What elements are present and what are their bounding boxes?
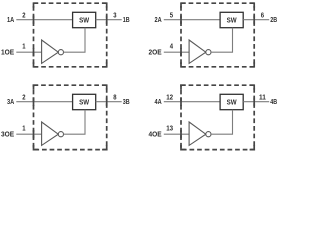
svg-text:2: 2 [22,92,25,101]
inverter bubble channel 3 [58,132,63,137]
wire 1A input [16,19,72,21]
svg-text:1: 1 [22,42,25,51]
wire 3OE input [16,133,41,135]
svg-text:3B: 3B [123,97,130,106]
wire 4A input [164,101,220,103]
inverter channel 1 [42,40,59,63]
svg-text:4A: 4A [155,97,163,106]
wire 1OE input [16,51,41,53]
svg-text:SW: SW [79,16,89,25]
svg-text:4OE: 4OE [149,130,162,139]
wire 2B output [243,19,269,21]
channel 4 dashed enclosure [181,85,254,149]
switch SW channel 3 [73,94,96,109]
tick pin 1 at enclosure border [33,130,35,138]
inverter channel 2 [189,40,206,63]
svg-text:13: 13 [166,124,173,133]
svg-text:4: 4 [170,42,174,51]
svg-text:2A: 2A [155,15,163,24]
tick pin 11 at enclosure border [253,98,255,106]
svg-text:6: 6 [261,10,264,19]
svg-text:1: 1 [22,124,25,133]
svg-text:1OE: 1OE [1,48,14,57]
wire 2OE input [164,51,189,53]
svg-text:3OE: 3OE [1,130,14,139]
wire 3A input [16,101,72,103]
wire 1B output [96,19,122,21]
svg-text:11: 11 [259,92,266,101]
svg-text:3: 3 [113,10,116,19]
wire inverter output to SW control channel 4 [211,110,233,135]
wire inverter output to SW control channel 3 [64,110,86,135]
switch SW channel 2 [220,12,243,27]
tick pin 8 at enclosure border [106,98,108,106]
svg-text:8: 8 [113,92,116,101]
wire 4OE input [164,133,189,135]
switch SW channel 4 [220,94,243,109]
tick pin 4 at enclosure border [180,48,182,56]
tick pin 1 at enclosure border [33,48,35,56]
channel 1 dashed enclosure [34,3,107,67]
tick pin 3 at enclosure border [106,16,108,24]
channel 2 dashed enclosure [181,3,254,67]
svg-text:5: 5 [170,10,173,19]
switch SW channel 1 [73,12,96,27]
wire 4B output [243,101,269,103]
svg-text:12: 12 [166,92,173,101]
inverter channel 3 [42,122,59,145]
svg-text:2: 2 [22,10,25,19]
svg-text:SW: SW [79,98,89,107]
tick pin 2 at enclosure border [33,16,35,24]
svg-text:4B: 4B [270,97,277,106]
svg-text:1B: 1B [123,15,130,24]
svg-text:SW: SW [227,98,237,107]
inverter bubble channel 1 [58,50,63,55]
inverter bubble channel 4 [206,132,211,137]
tick pin 6 at enclosure border [253,16,255,24]
wire 3B output [96,101,122,103]
wire inverter output to SW control channel 2 [211,28,233,53]
inverter channel 4 [189,122,206,145]
tick pin 2 at enclosure border [33,98,35,106]
tick pin 12 at enclosure border [180,98,182,106]
wire 2A input [164,19,220,21]
channel 3 dashed enclosure [34,85,107,149]
wire inverter output to SW control channel 1 [64,28,86,53]
inverter bubble channel 2 [206,50,211,55]
svg-text:SW: SW [227,16,237,25]
tick pin 5 at enclosure border [180,16,182,24]
tick pin 13 at enclosure border [180,130,182,138]
svg-text:2OE: 2OE [149,48,162,57]
svg-text:1A: 1A [7,15,15,24]
svg-text:2B: 2B [270,15,277,24]
svg-text:3A: 3A [7,97,15,106]
